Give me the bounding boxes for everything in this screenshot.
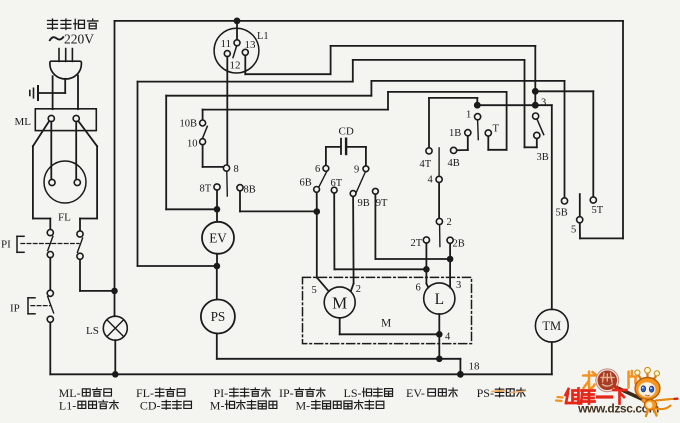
svg-text:6B: 6B — [300, 178, 312, 189]
svg-text:PI: PI — [1, 239, 11, 251]
svg-text:13: 13 — [245, 39, 257, 51]
svg-text:PS: PS — [211, 309, 226, 324]
svg-text:1B: 1B — [449, 128, 461, 139]
svg-text:8B: 8B — [244, 185, 256, 196]
svg-text:CD-: CD- — [140, 398, 161, 412]
svg-text:5: 5 — [312, 285, 317, 296]
svg-text:IP: IP — [10, 303, 20, 315]
svg-text:T: T — [493, 124, 500, 135]
svg-text:CD: CD — [339, 126, 354, 138]
svg-text:6: 6 — [315, 164, 320, 175]
svg-text:4: 4 — [428, 175, 434, 186]
svg-text:M: M — [332, 294, 347, 313]
svg-text:9T: 9T — [376, 198, 388, 209]
svg-text:9: 9 — [354, 165, 359, 176]
svg-text:3: 3 — [456, 280, 461, 291]
svg-text:5T: 5T — [592, 205, 604, 216]
svg-text:LS: LS — [86, 325, 99, 337]
svg-text:12: 12 — [230, 60, 241, 72]
svg-text:IP-: IP- — [279, 386, 294, 400]
svg-text:ML: ML — [15, 116, 32, 128]
svg-text:4B: 4B — [448, 158, 460, 169]
svg-text:2: 2 — [447, 217, 452, 228]
svg-text:10: 10 — [187, 139, 198, 150]
svg-text:2T: 2T — [411, 238, 423, 249]
svg-text:1: 1 — [466, 110, 471, 121]
svg-text:4: 4 — [445, 332, 451, 343]
svg-text:2B: 2B — [453, 239, 465, 250]
svg-text:4T: 4T — [420, 159, 432, 170]
svg-text:LS-: LS- — [344, 386, 362, 400]
svg-text:11: 11 — [221, 38, 232, 50]
svg-text:6: 6 — [416, 283, 421, 294]
svg-text:5: 5 — [571, 225, 576, 236]
svg-text:8T: 8T — [200, 184, 212, 195]
svg-text:L: L — [435, 291, 444, 308]
svg-text:220V: 220V — [64, 31, 94, 46]
svg-text:18: 18 — [469, 361, 481, 373]
svg-text:EV-: EV- — [406, 386, 425, 400]
svg-text:M: M — [381, 318, 391, 330]
svg-text:EV: EV — [209, 230, 227, 245]
svg-text:PS-: PS- — [477, 386, 494, 400]
svg-text:10B: 10B — [180, 119, 198, 130]
svg-text:FL: FL — [58, 212, 71, 224]
svg-text:TM: TM — [542, 319, 561, 333]
svg-text:3B: 3B — [537, 152, 549, 163]
svg-text:M-: M- — [296, 398, 311, 412]
svg-text:M-: M- — [210, 398, 225, 412]
svg-text:6T: 6T — [331, 178, 343, 189]
svg-text:L1: L1 — [257, 31, 269, 42]
svg-text:2: 2 — [356, 284, 361, 295]
svg-text:3: 3 — [541, 98, 546, 109]
svg-text:8: 8 — [234, 164, 239, 175]
svg-text:5B: 5B — [556, 208, 568, 219]
svg-text:L1-: L1- — [59, 398, 76, 412]
svg-text:9B: 9B — [358, 198, 370, 209]
